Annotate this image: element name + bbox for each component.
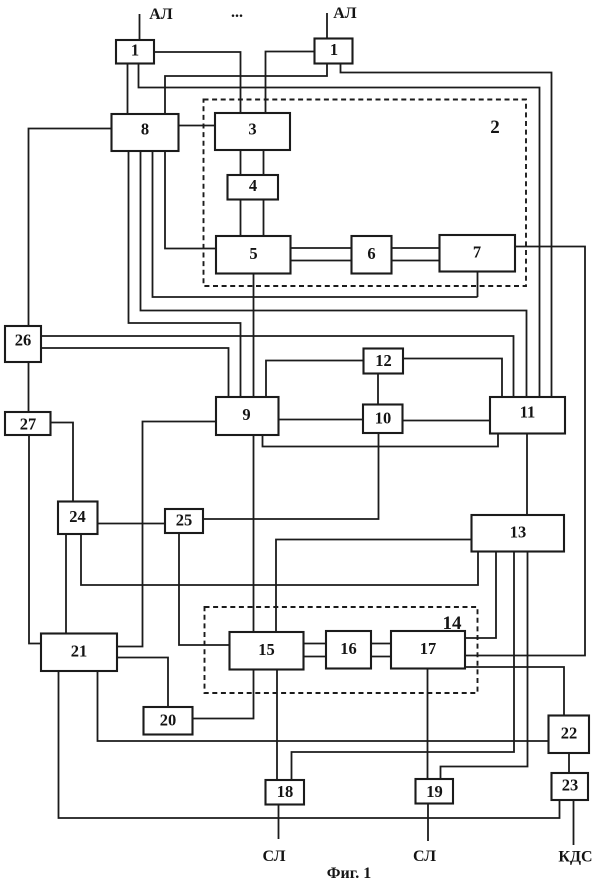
block 11 [490, 397, 565, 434]
svg-text:19: 19 [426, 782, 443, 801]
svg-text:АЛ: АЛ [149, 6, 173, 23]
wire block 8 left to block 26 top [29, 129, 112, 327]
wire block1R left to block 3 top [266, 52, 315, 114]
wire block 12 right to block 11 top [403, 359, 502, 398]
wire block 23 bottom КДС stub [573, 800, 575, 845]
block 17 [391, 631, 465, 669]
svg-text:...: ... [231, 4, 243, 21]
wire block 16 to block 17 (two horizontals) [371, 643, 391, 645]
wire block 20 right to block 15 bottom [193, 670, 254, 719]
wire block 24 right to block 25 left [98, 523, 166, 525]
wire block 19 bottom СЛ stub [427, 804, 429, 842]
wire block 27 right to block 24 top [51, 423, 74, 502]
wire block 8 bottom pin1 to block 9 top [129, 151, 241, 397]
wire block1L bottom right to block 11 top (long) [139, 64, 540, 398]
svg-text:20: 20 [160, 711, 177, 730]
wire block 7 bottom stub [477, 272, 479, 298]
wire block 3 to block 4 (two verticals) [240, 150, 242, 175]
wire АЛ stub into block 1 left [139, 14, 141, 40]
svg-text:9: 9 [242, 405, 250, 424]
wire block 10 bottom to block 25 right [203, 433, 379, 519]
block 24 [58, 502, 98, 535]
svg-text:7: 7 [473, 243, 481, 262]
block 1 (left) [116, 40, 154, 64]
wire block 22 bottom to block 23 top [568, 753, 570, 773]
block 15 [230, 632, 304, 670]
wire block 13 bottom pin2 to block 17 right [465, 552, 496, 639]
svg-text:5: 5 [249, 244, 257, 263]
svg-text:12: 12 [375, 351, 392, 370]
svg-text:СЛ: СЛ [262, 848, 285, 865]
wire block 13 bottom pin4 to block 19 top [441, 552, 528, 780]
wire block 8 bottom pin3 to block 7 bottom [153, 151, 478, 297]
wire block 8 bottom pin4 to block 5 left [165, 151, 216, 249]
block 6 [352, 236, 392, 274]
block 26 [5, 326, 41, 362]
wire block 17 right to block 22 top [465, 667, 564, 716]
svg-text:2: 2 [490, 117, 500, 138]
wire block 12 bottom to block 10 top [377, 374, 379, 405]
block 25 [165, 509, 203, 533]
wire АЛ stub into block 1 right [326, 13, 328, 39]
wire block1L right to block 3 top [154, 52, 241, 113]
wire block 10 right to block 11 left [403, 420, 491, 422]
svg-text:Фиг. 1: Фиг. 1 [327, 865, 371, 882]
wire block 12 left to block 9 top [266, 361, 364, 398]
svg-text:6: 6 [367, 244, 375, 263]
wire block 27 bottom to block 21 left [29, 435, 41, 644]
wire block 9 right to block 10 left [279, 419, 364, 421]
svg-text:1: 1 [131, 41, 139, 60]
svg-text:4: 4 [249, 176, 257, 195]
wire block 13 bottom pin3 to block 18 top [292, 552, 515, 781]
wire block 15 bottom to block 18 top [276, 670, 278, 781]
block 20 [144, 707, 193, 735]
svg-text:1: 1 [330, 40, 338, 59]
wire block 24 bottom pin1 to block 21 top [65, 534, 67, 634]
block 8 [112, 114, 179, 151]
wire block 24 bottom pin2 to block 13 bottom pin1 [81, 534, 478, 585]
svg-text:11: 11 [520, 403, 536, 422]
svg-text:АЛ: АЛ [333, 5, 357, 22]
wire block1R bottom to block 8 top [165, 64, 327, 115]
wire block 26 bottom to block 27 top [28, 362, 30, 412]
dashed group 2 [204, 100, 527, 287]
wire block 15 to block 16 (two horizontals) [304, 643, 327, 645]
block 7 [440, 235, 516, 272]
wire block 7 right to block 17 right (down far right side) [465, 247, 585, 656]
wire block 5 to block 6 (two horizontals) [291, 247, 352, 249]
svg-text:15: 15 [258, 640, 275, 659]
wire block 21 bottom to block 23 bottom [59, 671, 560, 818]
wire block 9 bottom to block 11 bottom [263, 434, 499, 447]
wire block1R bottom to block 11 top (long right) [341, 64, 552, 398]
svg-text:10: 10 [375, 409, 392, 428]
svg-text:18: 18 [277, 782, 294, 801]
svg-text:СЛ: СЛ [413, 848, 436, 865]
block 19 [416, 779, 454, 804]
block 27 [5, 412, 51, 435]
dashed group 14 [205, 607, 478, 693]
svg-text:13: 13 [510, 523, 527, 542]
wire block 9 bottom to block 15 top [253, 435, 255, 632]
block 18 [266, 780, 305, 805]
svg-text:25: 25 [176, 511, 193, 530]
wire block 21 bottom to block 22 left [98, 671, 549, 741]
wire block 13 left to block 15 top [276, 540, 472, 633]
block 12 [364, 349, 404, 374]
wire block 21 right to block 20 top [117, 658, 168, 708]
wire block 8 bottom pin2 to block 11 top [141, 151, 527, 397]
wire block 26 right upper to block 11 top [41, 336, 514, 397]
block 10 [363, 405, 403, 434]
block 3 [215, 113, 290, 150]
svg-text:8: 8 [141, 120, 149, 139]
wire block 11 bottom to block 13 top [526, 434, 528, 516]
svg-text:24: 24 [69, 507, 86, 526]
wire block 9 left to block 21 right [117, 422, 216, 647]
wire block 8 right to block 3 left [179, 125, 216, 127]
block 13 [472, 515, 565, 552]
wire block 4 to block 5 (two verticals) [240, 200, 242, 237]
block 1 (right) [315, 39, 353, 64]
svg-text:22: 22 [561, 724, 578, 743]
wire block 6 to block 7 (two horizontals) [392, 247, 440, 249]
wire block 17 bottom to block 19 top [427, 669, 429, 780]
svg-text:17: 17 [420, 639, 437, 658]
wire block 18 bottom СЛ stub [278, 805, 280, 840]
svg-text:КДС: КДС [558, 849, 592, 866]
block 16 [326, 631, 371, 669]
svg-text:23: 23 [562, 776, 579, 795]
svg-text:27: 27 [20, 415, 37, 434]
block 22 [549, 716, 590, 754]
block 9 [216, 397, 279, 435]
svg-text:3: 3 [248, 120, 256, 139]
block 23 [552, 773, 589, 800]
block 5 [216, 236, 291, 274]
svg-text:26: 26 [15, 331, 32, 350]
wire block 25 bottom to block 15 left [179, 533, 230, 645]
block 21 [41, 634, 117, 672]
block 4 [228, 175, 279, 200]
svg-text:16: 16 [340, 639, 357, 658]
wire block 5 bottom to block 9 top [253, 274, 255, 398]
wire block 26 right lower to block 9 top [41, 348, 229, 397]
wire block1L bottom to block 8 top [127, 64, 129, 115]
svg-text:21: 21 [71, 642, 88, 661]
